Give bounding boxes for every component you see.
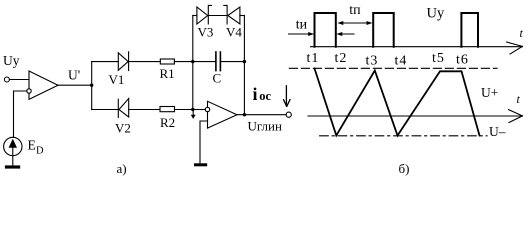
svg-text:V4: V4 — [226, 25, 242, 40]
node — [243, 113, 246, 116]
svg-text:U': U' — [68, 68, 80, 83]
wire — [92, 61, 119, 63]
input terminal Uy — [4, 77, 9, 82]
current arrow i_oc — [284, 86, 290, 107]
capacitor C — [216, 52, 221, 71]
ground — [194, 163, 207, 166]
arrow tu end — [336, 32, 354, 36]
output terminal — [286, 112, 291, 117]
arrow tu start — [289, 32, 315, 36]
wire — [129, 109, 160, 111]
op-amp U1 — [27, 71, 58, 99]
svg-text:а): а) — [117, 161, 127, 176]
diode V1 — [118, 52, 128, 71]
svg-text:t4: t4 — [395, 54, 408, 69]
svg-text:C: C — [213, 71, 222, 86]
wire — [92, 109, 119, 111]
svg-text:t1: t1 — [307, 51, 320, 66]
triangle waveform — [315, 69, 480, 136]
wire — [9, 79, 29, 81]
svg-text:D: D — [36, 146, 44, 157]
resistor R2 — [160, 107, 175, 112]
op-amp U2 — [205, 101, 237, 128]
svg-text:V2: V2 — [115, 121, 131, 136]
arrow tn — [337, 21, 372, 25]
ground — [5, 156, 20, 169]
wire — [193, 15, 197, 17]
level U+ dashed — [289, 67, 497, 69]
svg-text:б): б) — [399, 161, 410, 176]
wire — [220, 61, 244, 63]
wire — [14, 91, 27, 137]
wire — [192, 16, 194, 110]
diode V2 — [118, 99, 128, 118]
zener V3 — [197, 5, 212, 24]
current arrow — [191, 112, 196, 120]
resistor R1 — [160, 59, 174, 64]
wire — [243, 16, 245, 115]
svg-text:Uy: Uy — [427, 6, 445, 22]
time axis bottom — [308, 110, 523, 123]
wire — [237, 114, 286, 116]
svg-text:tп: tп — [349, 3, 361, 18]
svg-text:R2: R2 — [160, 115, 175, 130]
svg-text:V3: V3 — [198, 25, 214, 40]
wire — [175, 109, 193, 111]
wire — [193, 109, 206, 111]
pulse 2 — [373, 13, 394, 47]
svg-text:U+: U+ — [481, 85, 498, 100]
svg-text:Uглин: Uглин — [248, 119, 283, 134]
svg-text:t3: t3 — [366, 54, 379, 69]
svg-text:Uy: Uy — [3, 53, 20, 68]
wire — [58, 84, 92, 86]
svg-text:E: E — [28, 138, 36, 153]
wire — [129, 61, 161, 63]
level U- dash-dot — [320, 135, 487, 137]
wire — [91, 62, 93, 110]
svg-text:t2: t2 — [335, 51, 348, 66]
node — [243, 60, 246, 63]
wire — [200, 121, 208, 163]
svg-text:ос: ос — [259, 89, 271, 103]
pulse 3 — [461, 13, 478, 47]
node — [191, 60, 194, 63]
time axis top — [311, 42, 523, 54]
wire — [208, 15, 227, 17]
svg-text:t6: t6 — [456, 53, 469, 68]
svg-text:U–: U– — [489, 124, 506, 139]
svg-text:tи: tи — [296, 18, 308, 33]
svg-text:t5: t5 — [432, 51, 445, 66]
zener V4 — [224, 5, 240, 24]
svg-text:R1: R1 — [160, 66, 175, 81]
wire — [240, 15, 245, 17]
svg-text:i: i — [253, 84, 258, 104]
wire — [193, 61, 216, 63]
pulse 1 — [315, 13, 336, 47]
svg-text:V1: V1 — [109, 72, 125, 87]
wire — [174, 61, 192, 63]
node — [90, 84, 93, 87]
current source E_D — [4, 137, 22, 155]
node — [191, 108, 194, 111]
